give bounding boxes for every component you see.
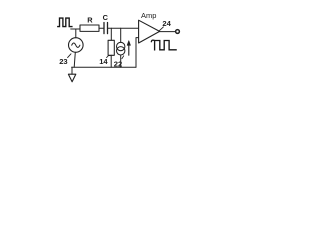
AC source 23 circle (69, 38, 84, 53)
capacitor C plates (104, 23, 108, 34)
wire: C to amp input (108, 27, 138, 29)
svg-text:23: 23 (59, 57, 67, 66)
leader for label 14 (107, 55, 110, 57)
op-amp Amp triangle (139, 20, 160, 43)
output terminal ring 24 (176, 30, 180, 34)
svg-text:R: R (87, 16, 93, 25)
leader for label 24 (159, 27, 164, 31)
wire: bus up to amp lower input (136, 38, 139, 68)
svg-text:14: 14 (99, 57, 108, 66)
leader for label 23 (68, 54, 71, 58)
svg-text:24: 24 (162, 19, 171, 28)
resistor 14 box (108, 40, 114, 55)
wire: drop to resistor 14 (110, 28, 112, 40)
svg-text:Amp: Amp (141, 11, 156, 20)
wire: drop to current source 22 (120, 28, 122, 42)
wire: source 23 down to bus (74, 52, 75, 67)
wire: resistor 14 to bus (110, 55, 112, 67)
ground stub (71, 67, 73, 74)
input pulse waveform symbol (58, 18, 72, 27)
resistor R box (80, 25, 99, 31)
wire: source 22 to bus (120, 55, 122, 67)
leader for label 22 (122, 56, 124, 59)
wire: node down to source 23 (75, 29, 77, 38)
svg-text:22: 22 (114, 59, 122, 68)
wire: R to C (99, 27, 104, 29)
current direction arrow (128, 44, 130, 55)
ground triangle symbol (68, 74, 75, 82)
current source 22 (two interlocking circles) (117, 42, 125, 50)
output pulse waveform symbol (151, 40, 176, 50)
ground bus wire (72, 66, 136, 68)
wire: node to resistor R (71, 28, 80, 30)
wire: amp output (160, 31, 176, 33)
svg-text:C: C (103, 13, 109, 22)
sine wave inside source 23 (72, 43, 80, 47)
